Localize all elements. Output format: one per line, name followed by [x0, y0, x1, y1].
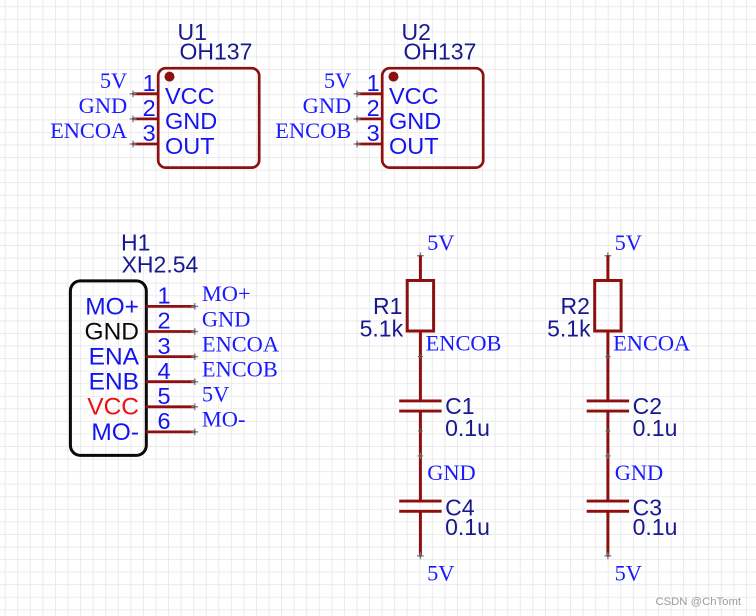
capacitor C3 plates [587, 501, 629, 511]
svg-text:5.1k: 5.1k [547, 316, 591, 342]
svg-text:0.1u: 0.1u [633, 415, 678, 441]
svg-text:OUT: OUT [389, 133, 439, 159]
svg-text:ENCOB: ENCOB [426, 330, 502, 355]
svg-text:2: 2 [143, 95, 156, 121]
svg-text:MO-: MO- [91, 419, 139, 446]
pin 1 wire of U1 [133, 92, 159, 95]
wire R2 to C2 [606, 331, 609, 400]
pin 2 end marker of U1 [130, 116, 137, 123]
svg-text:3: 3 [143, 120, 156, 146]
junction marker below C2 [606, 429, 610, 433]
wire C4 to bottom 5V [419, 511, 422, 556]
svg-text:2: 2 [158, 308, 171, 334]
svg-text:OH137: OH137 [180, 39, 253, 65]
svg-text:ENA: ENA [89, 344, 140, 371]
svg-text:0.1u: 0.1u [445, 514, 490, 540]
pin 2 end marker of H1 [191, 328, 198, 335]
svg-text:MO+: MO+ [202, 281, 251, 306]
svg-text:GND: GND [202, 306, 251, 331]
pin 6 wire of H1 [146, 430, 195, 433]
svg-text:VCC: VCC [87, 394, 139, 421]
svg-text:1: 1 [143, 70, 156, 96]
svg-text:GND: GND [389, 108, 441, 134]
svg-text:1: 1 [158, 283, 171, 309]
pin-1 dot of U1 [165, 72, 175, 82]
bottom wire end marker of C3 column [605, 553, 612, 560]
wire R1 to C1 [419, 331, 422, 400]
junction marker at ENCOB net [418, 354, 423, 359]
svg-text:6: 6 [158, 408, 171, 434]
svg-text:5V: 5V [615, 230, 642, 255]
pin 2 wire of H1 [146, 330, 195, 333]
pin 3 wire of U2 [357, 143, 383, 146]
pin 3 wire of H1 [146, 355, 195, 358]
svg-text:OH137: OH137 [404, 39, 477, 65]
pin 3 end marker of U1 [130, 141, 137, 148]
svg-text:GND: GND [615, 460, 664, 485]
pin 1 wire of U2 [357, 92, 383, 95]
svg-text:5V: 5V [324, 68, 351, 93]
svg-text:5.1k: 5.1k [360, 316, 404, 342]
svg-text:3: 3 [158, 333, 171, 359]
svg-text:ENCOA: ENCOA [613, 330, 690, 355]
pin 4 wire of H1 [146, 380, 195, 383]
pin 1 end marker of H1 [191, 303, 198, 310]
wire C1 to C4 [419, 411, 422, 500]
resistor R2 body [595, 281, 621, 332]
svg-text:5V: 5V [100, 68, 127, 93]
svg-text:2: 2 [367, 95, 380, 121]
pin 6 end marker of H1 [191, 429, 198, 436]
svg-text:MO-: MO- [202, 407, 246, 432]
top wire end marker of R1 column [417, 252, 424, 259]
wire C2 to C3 [606, 411, 609, 500]
pin 2 wire of U1 [133, 118, 159, 121]
junction marker below C1 [418, 429, 422, 433]
capacitor C2 plates [587, 401, 629, 411]
svg-text:ENCOA: ENCOA [202, 331, 279, 356]
connector H1 body [70, 281, 146, 456]
wire 5V to R2 [606, 256, 609, 282]
wire C3 to bottom 5V [606, 511, 609, 556]
svg-text:5: 5 [158, 383, 171, 409]
svg-text:GND: GND [85, 318, 139, 345]
top wire end marker of R2 column [605, 252, 612, 259]
svg-text:XH2.54: XH2.54 [122, 252, 199, 278]
svg-text:5V: 5V [427, 230, 454, 255]
resistor R1 body [407, 281, 433, 332]
IC body U1 [158, 68, 259, 167]
wire 5V to R1 [419, 256, 422, 282]
svg-text:3: 3 [367, 120, 380, 146]
bottom wire end marker of C4 column [417, 553, 424, 560]
svg-text:CSDN @ChTomt: CSDN @ChTomt [655, 596, 741, 608]
pin 1 end marker of U1 [130, 90, 137, 97]
svg-text:0.1u: 0.1u [633, 514, 678, 540]
svg-text:VCC: VCC [165, 83, 215, 109]
svg-text:GND: GND [427, 460, 476, 485]
svg-text:GND: GND [303, 93, 352, 118]
pin 2 end marker of U2 [354, 116, 361, 123]
svg-text:0.1u: 0.1u [445, 415, 490, 441]
svg-text:5V: 5V [427, 560, 454, 585]
junction marker at ENCOA net [606, 354, 611, 359]
junction marker at GND net of C3 column [605, 453, 611, 459]
pin 3 end marker of H1 [191, 353, 198, 360]
capacitor C4 plates [399, 501, 441, 511]
capacitor C1 plates [399, 401, 441, 411]
svg-text:ENCOB: ENCOB [202, 357, 278, 382]
IC body U2 [382, 68, 483, 167]
pin 3 end marker of U2 [354, 141, 361, 148]
svg-text:VCC: VCC [389, 83, 439, 109]
svg-text:1: 1 [367, 70, 380, 96]
svg-text:5V: 5V [202, 382, 229, 407]
svg-text:GND: GND [165, 108, 217, 134]
svg-text:4: 4 [158, 358, 171, 384]
pin 5 end marker of H1 [191, 403, 198, 410]
svg-text:OUT: OUT [165, 133, 215, 159]
svg-text:GND: GND [79, 93, 128, 118]
pin 4 end marker of H1 [191, 378, 198, 385]
pin 2 wire of U2 [357, 118, 383, 121]
pin 3 wire of U1 [133, 143, 159, 146]
svg-text:ENCOB: ENCOB [275, 118, 351, 143]
svg-text:ENB: ENB [89, 369, 139, 396]
pin 1 wire of H1 [146, 305, 195, 308]
pin 1 end marker of U2 [354, 90, 361, 97]
svg-text:ENCOA: ENCOA [50, 118, 127, 143]
pin-1 dot of U2 [389, 72, 399, 82]
pin 5 wire of H1 [146, 405, 195, 408]
svg-text:5V: 5V [615, 560, 642, 585]
junction marker at GND net of C4 column [418, 453, 424, 459]
svg-text:MO+: MO+ [85, 293, 139, 320]
